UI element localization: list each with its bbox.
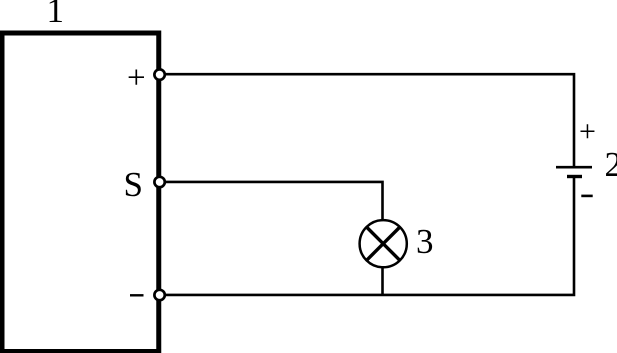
terminal node -: [154, 290, 164, 300]
wire + terminal to battery top: [160, 74, 574, 166]
lamp 3 circle: [360, 220, 407, 267]
terminal node +: [154, 69, 164, 79]
lamp 3 cross line NW-SE: [367, 227, 400, 260]
svg-text:+: +: [579, 115, 596, 148]
battery cell 2 long plate: [556, 166, 592, 169]
svg-text:3: 3: [416, 222, 434, 261]
terminal node S: [154, 177, 164, 187]
svg-text:S: S: [124, 165, 143, 204]
lamp 3 cross line NE-SW: [367, 227, 400, 260]
wire lamp bottom to bottom rail: [381, 267, 384, 295]
svg-text:1: 1: [47, 0, 65, 30]
svg-text:+: +: [127, 60, 146, 96]
battery cell 2 short plate: [567, 175, 582, 178]
sensor box 1: [2, 33, 159, 352]
label - (box terminal): [130, 294, 144, 296]
svg-text:2: 2: [605, 145, 617, 184]
wire S terminal to lamp top: [160, 182, 383, 220]
wire - terminal to battery bottom (bottom rail): [160, 178, 574, 295]
label - (battery): [581, 195, 592, 198]
